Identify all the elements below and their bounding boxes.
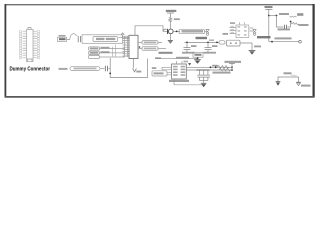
svg-text:Dummy Connector: Dummy Connector [10,66,51,72]
